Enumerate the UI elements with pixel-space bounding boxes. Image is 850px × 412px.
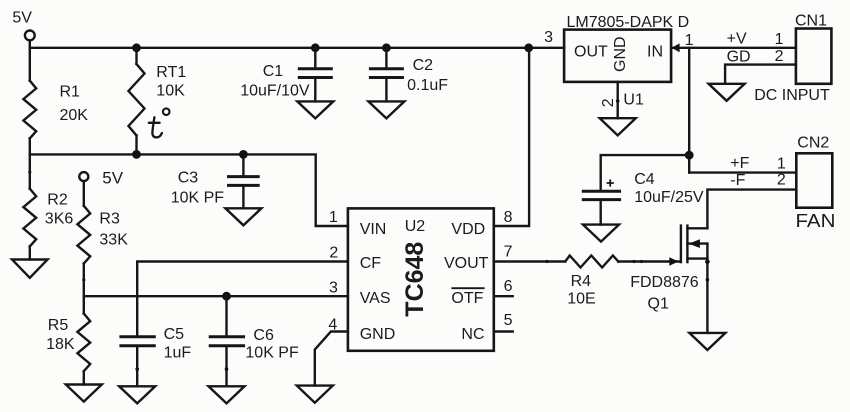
svg-text:NC: NC: [461, 326, 484, 343]
svg-text:C6: C6: [253, 327, 274, 344]
wire R1 bottom to lower rail: [29, 138, 31, 154]
wire 5V terminal down to R1: [29, 41, 31, 81]
svg-text:TC648: TC648: [401, 242, 429, 317]
capacitor C3: [171, 154, 260, 208]
wire VOUT pin 7 to R4: [494, 260, 566, 262]
pin 5 stub: [494, 330, 513, 332]
arrow into Q1 gate: [669, 257, 678, 265]
svg-text:GND: GND: [612, 36, 629, 72]
voltage regulator U1 LM7805: [564, 14, 689, 82]
ground C4: [583, 225, 619, 242]
svg-text:U2: U2: [405, 218, 426, 235]
svg-text:3: 3: [544, 29, 553, 46]
svg-text:2: 2: [775, 48, 784, 65]
wire VAS pin 3 rail: [84, 295, 348, 297]
svg-text:10K PF: 10K PF: [245, 345, 299, 362]
svg-text:C2: C2: [413, 57, 434, 74]
wire U1 GND pin 2: [617, 82, 619, 118]
svg-text:18K: 18K: [46, 336, 75, 353]
svg-text:2: 2: [600, 98, 617, 107]
resistor R5: [46, 296, 90, 384]
svg-text:3: 3: [329, 279, 338, 296]
junction C6: [222, 292, 231, 301]
svg-text:2: 2: [329, 244, 338, 261]
svg-text:1uF: 1uF: [164, 345, 192, 362]
svg-text:1: 1: [685, 32, 694, 49]
junction VDD rail: [524, 43, 533, 52]
wire +F to CN2 pin 1: [689, 171, 796, 173]
svg-text:5: 5: [504, 312, 513, 329]
svg-text:LM7805-DAPK D: LM7805-DAPK D: [567, 14, 690, 31]
svg-text:-F: -F: [730, 172, 745, 189]
svg-text:R3: R3: [99, 211, 120, 228]
ground R2: [12, 260, 48, 278]
svg-text:C3: C3: [178, 169, 199, 186]
junction C3: [239, 150, 248, 159]
wire CN1 pin 2 GD to ground: [725, 65, 796, 84]
junction RT1 bottom: [132, 150, 141, 159]
wire +V branch down to fan circuit: [688, 48, 690, 173]
svg-text:5V: 5V: [102, 168, 123, 187]
wire U1 IN to +V node: [671, 47, 796, 49]
svg-text:RT1: RT1: [156, 64, 186, 81]
svg-text:CF: CF: [360, 255, 382, 272]
ground U1: [600, 118, 636, 135]
svg-text:C1: C1: [263, 63, 284, 80]
svg-text:FAN: FAN: [796, 211, 836, 231]
svg-text:10uF/25V: 10uF/25V: [634, 189, 704, 206]
junction C4 tap: [685, 151, 694, 160]
svg-text:+F: +F: [730, 155, 749, 172]
svg-text:8: 8: [504, 209, 513, 226]
mosfet Q1 FDD8876: [630, 226, 707, 313]
svg-text:3K6: 3K6: [45, 211, 74, 228]
connector CN2: [730, 135, 835, 231]
ic U2 TC648: [348, 208, 494, 350]
svg-text:VDD: VDD: [451, 221, 485, 238]
svg-text:OTF: OTF: [451, 290, 483, 307]
svg-text:R5: R5: [48, 317, 69, 334]
svg-text:U1: U1: [623, 91, 644, 108]
capacitor C4: [582, 155, 704, 225]
node 5V terminal (R3): [79, 168, 123, 187]
svg-text:IN: IN: [647, 44, 663, 61]
resistor R3: [77, 181, 128, 296]
arrow into IN pin: [672, 43, 680, 52]
wire R4 to Q1 gate: [618, 260, 679, 262]
svg-text:7: 7: [504, 244, 513, 261]
svg-text:GND: GND: [360, 326, 396, 343]
ground TC648: [297, 386, 333, 403]
svg-text:DC INPUT: DC INPUT: [754, 87, 830, 104]
resistor R2: [23, 154, 73, 259]
svg-text:+V: +V: [727, 31, 747, 48]
svg-text:C5: C5: [164, 326, 185, 343]
ground C2: [368, 101, 404, 118]
ground C1: [297, 101, 333, 118]
capacitor C2: [369, 48, 448, 102]
capacitor C1: [240, 48, 333, 102]
junction RT1 top: [132, 43, 141, 52]
junction C2: [382, 43, 391, 52]
wire Q1 source to ground: [706, 259, 708, 333]
svg-text:10K: 10K: [156, 83, 185, 100]
svg-text:CN2: CN2: [797, 135, 829, 152]
svg-text:6: 6: [504, 278, 513, 295]
svg-text:10E: 10E: [567, 291, 595, 308]
node 5V terminal (top left): [12, 9, 34, 40]
wire VDD pin 8 to 5V rail: [494, 48, 529, 226]
wire lower rail to VIN pin 1: [30, 154, 348, 226]
svg-text:Q1: Q1: [648, 295, 669, 312]
resistor R4: [565, 256, 618, 308]
svg-text:C4: C4: [634, 171, 655, 188]
wire top 5V rail: [30, 47, 564, 49]
ground Q1: [689, 333, 725, 350]
svg-text:VOUT: VOUT: [444, 255, 489, 272]
capacitor C6: [209, 296, 299, 386]
svg-text:0.1uF: 0.1uF: [407, 77, 448, 94]
svg-text:1: 1: [775, 31, 784, 48]
ground C6: [209, 386, 245, 403]
svg-text:2: 2: [777, 172, 786, 189]
svg-text:1: 1: [777, 155, 786, 172]
svg-text:FDD8876: FDD8876: [630, 274, 699, 291]
ground C5: [119, 386, 155, 403]
connector CN1: [727, 12, 832, 104]
ground R5: [66, 385, 102, 402]
ground DC input: [709, 84, 745, 101]
svg-text:GD: GD: [727, 49, 751, 66]
svg-text:VAS: VAS: [360, 290, 391, 307]
wire GND pin 4 to ground: [315, 332, 348, 386]
svg-text:10uF/10V: 10uF/10V: [240, 82, 310, 99]
thermistor RT1: [129, 48, 187, 155]
svg-text:OUT: OUT: [574, 44, 608, 61]
wire -F from CN2 pin 2 to Q1 drain: [707, 190, 796, 229]
svg-text:5V: 5V: [12, 9, 32, 26]
pin 6 stub: [494, 295, 513, 297]
svg-text:10K PF: 10K PF: [171, 189, 225, 206]
resistor R1: [23, 81, 88, 139]
svg-text:VIN: VIN: [360, 221, 387, 238]
svg-text:R2: R2: [47, 191, 68, 208]
svg-text:R4: R4: [571, 273, 592, 290]
wire CF pin 2 to C5: [137, 262, 348, 336]
junction C1: [311, 43, 320, 52]
ground C3: [225, 208, 261, 225]
svg-text:CN1: CN1: [795, 12, 827, 29]
capacitor C5: [119, 326, 191, 386]
svg-text:R1: R1: [60, 83, 81, 100]
svg-text:33K: 33K: [99, 231, 128, 248]
svg-text:1: 1: [329, 209, 338, 226]
svg-text:20K: 20K: [60, 107, 89, 124]
